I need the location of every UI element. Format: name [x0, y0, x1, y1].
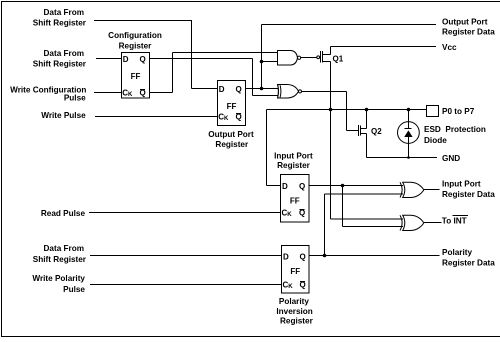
svg-text:Vcc: Vcc — [442, 43, 457, 52]
flip-flop U3 Input Port Register — [281, 175, 310, 223]
wire Write Polarity Pulse to U4 CK — [90, 284, 282, 286]
label Read Pulse — [41, 209, 86, 218]
label GND — [442, 154, 460, 163]
node junction Q2 drain on pad net — [365, 108, 369, 112]
label Data From Shift Register (second) — [33, 49, 87, 68]
flip-flop U1 Configuration Register — [122, 53, 150, 99]
wire U3 Q to XOR G3 upper input — [309, 185, 403, 187]
xnor-gate G2 — [278, 85, 302, 99]
label Vcc — [442, 43, 457, 52]
pad P0 to P7 — [427, 106, 439, 117]
wire G3 output — [424, 189, 440, 191]
svg-text:K: K — [128, 92, 133, 98]
svg-text:D: D — [283, 252, 289, 261]
node junction ESD diode on pad net — [407, 108, 411, 112]
svg-text:Shift Register: Shift Register — [33, 255, 87, 264]
svg-text:Output Port: Output Port — [442, 18, 488, 27]
svg-text:Diode: Diode — [424, 136, 447, 145]
svg-text:FF: FF — [290, 267, 300, 276]
xor-gate G3 Input Port Register Data — [400, 182, 424, 197]
svg-text:Register: Register — [119, 42, 153, 51]
label Output Port Register Data — [442, 18, 495, 37]
transistor Q2 NMOS — [359, 125, 383, 136]
wire Write Pulse to Output Port Register CK — [95, 116, 218, 118]
svg-text:Q: Q — [140, 55, 146, 64]
nand-gate G1 — [278, 51, 301, 66]
node junction polarity branch — [323, 254, 327, 258]
svg-text:Pulse: Pulse — [64, 94, 86, 103]
node junction ESD diode on GND rail — [407, 156, 410, 159]
svg-text:Write Pulse: Write Pulse — [41, 111, 86, 120]
wire Read Pulse to U3 CK — [89, 212, 281, 214]
svg-text:Register: Register — [215, 140, 249, 149]
label P0 to P7 — [442, 107, 475, 116]
svg-text:Q: Q — [300, 252, 306, 261]
svg-text:Pulse: Pulse — [63, 285, 85, 294]
wire NAND lower input branch — [262, 61, 278, 63]
svg-text:Output Port: Output Port — [208, 130, 254, 139]
svg-text:D: D — [282, 182, 288, 191]
xor-gate G4 To INT — [400, 215, 424, 230]
svg-text:To INT: To INT — [442, 217, 467, 226]
svg-text:D: D — [219, 85, 225, 94]
svg-text:Polarity: Polarity — [279, 297, 309, 306]
wire U4 Q Polarity Register Data — [309, 255, 440, 257]
wire Data From Shift Register (top) to Output Port Register D — [94, 20, 218, 89]
wire U1 Qbar up to NAND gate upper input — [150, 53, 278, 93]
label Write Configuration Pulse — [10, 86, 86, 103]
svg-text:Data From: Data From — [44, 8, 85, 17]
label Configuration Register — [108, 31, 162, 51]
label ESD Protection Diode — [424, 125, 486, 145]
svg-text:GND: GND — [442, 154, 460, 163]
diode D1 ESD protection — [398, 110, 420, 158]
svg-text:K: K — [287, 212, 292, 218]
svg-text:Register Data: Register Data — [442, 190, 495, 199]
svg-text:Q2: Q2 — [371, 127, 382, 136]
wire U1 Q to XNOR gate lower input — [150, 59, 279, 96]
transistor Q1 PMOS — [317, 51, 344, 64]
label Input Port Register — [274, 152, 313, 170]
svg-text:FF: FF — [227, 102, 237, 111]
wire Data From Shift Register (second) to Configuration Register D — [96, 58, 122, 60]
label Write Pulse — [41, 111, 86, 120]
svg-text:D: D — [123, 55, 129, 64]
wire GND rail — [367, 157, 438, 159]
wire pad net P0-P7 — [267, 110, 427, 186]
svg-text:FF: FF — [131, 72, 141, 81]
label Data From Shift Register (top) — [33, 8, 87, 28]
svg-text:Q: Q — [299, 182, 305, 191]
svg-text:Data From: Data From — [44, 49, 85, 58]
flip-flop U2 Output Port Register — [218, 81, 246, 126]
label To INT with overline — [442, 216, 468, 226]
label Input Port Register Data — [442, 180, 495, 200]
wire Q2 drain up to pad net — [366, 110, 368, 129]
svg-text:Read Pulse: Read Pulse — [41, 209, 86, 218]
wire U3 Q down to XOR G4 lower input — [343, 186, 404, 227]
svg-text:Register: Register — [280, 317, 314, 326]
svg-text:P0 to P7: P0 to P7 — [442, 107, 475, 116]
wire Data From Shift Register (bottom) to U4 D — [90, 255, 282, 257]
svg-text:K: K — [224, 116, 229, 122]
node junction U3 Q branch — [341, 184, 345, 188]
svg-text:Inversion: Inversion — [276, 307, 312, 316]
svg-text:Data From: Data From — [44, 244, 85, 253]
flip-flop U4 Polarity Inversion Register — [282, 246, 310, 294]
label Output Port Register — [208, 130, 254, 149]
svg-text:K: K — [288, 284, 293, 290]
wire G4 output — [424, 222, 442, 224]
svg-text:Register Data: Register Data — [442, 258, 495, 267]
svg-text:Shift Register: Shift Register — [33, 59, 87, 68]
svg-text:Register: Register — [277, 161, 311, 170]
svg-text:ESD Protection: ESD Protection — [424, 125, 486, 134]
wire G1 output to Q1 gate — [301, 57, 317, 59]
svg-text:Shift Register: Shift Register — [33, 19, 87, 28]
svg-text:FF: FF — [290, 197, 300, 206]
wire Q2 source down to GND — [366, 134, 368, 158]
wire Output Port Register Data line — [262, 25, 437, 89]
svg-text:Input Port: Input Port — [442, 180, 481, 189]
svg-text:Configuration: Configuration — [108, 31, 162, 40]
label Data From Shift Register (bottom) — [33, 244, 87, 264]
wire polarity output up to XOR G3 lower input — [325, 194, 404, 256]
node junction NAND lower input branch — [260, 60, 264, 64]
svg-text:Q: Q — [236, 85, 242, 94]
wire U2 Q to XNOR gate upper input — [246, 88, 279, 90]
node junction U2 Q branch — [260, 87, 264, 91]
wire G2 output to Q2 gate — [302, 92, 359, 131]
wire Write Configuration Pulse to Configuration Register CK — [94, 92, 122, 94]
svg-text:Write Polarity: Write Polarity — [32, 274, 85, 283]
svg-text:Q1: Q1 — [333, 55, 344, 64]
svg-text:Polarity: Polarity — [442, 248, 472, 257]
label Write Polarity Pulse — [32, 274, 85, 294]
node junction Q1 drain on pad net — [329, 108, 333, 112]
wire Q1 source to Vcc — [331, 47, 437, 55]
label Polarity Inversion Register — [276, 297, 313, 325]
wire Q1 drain down to pad net and XOR To-INT upper input — [331, 62, 404, 220]
label Polarity Register Data — [442, 248, 495, 267]
svg-text:Input Port: Input Port — [274, 152, 313, 161]
svg-text:Register Data: Register Data — [442, 28, 495, 37]
